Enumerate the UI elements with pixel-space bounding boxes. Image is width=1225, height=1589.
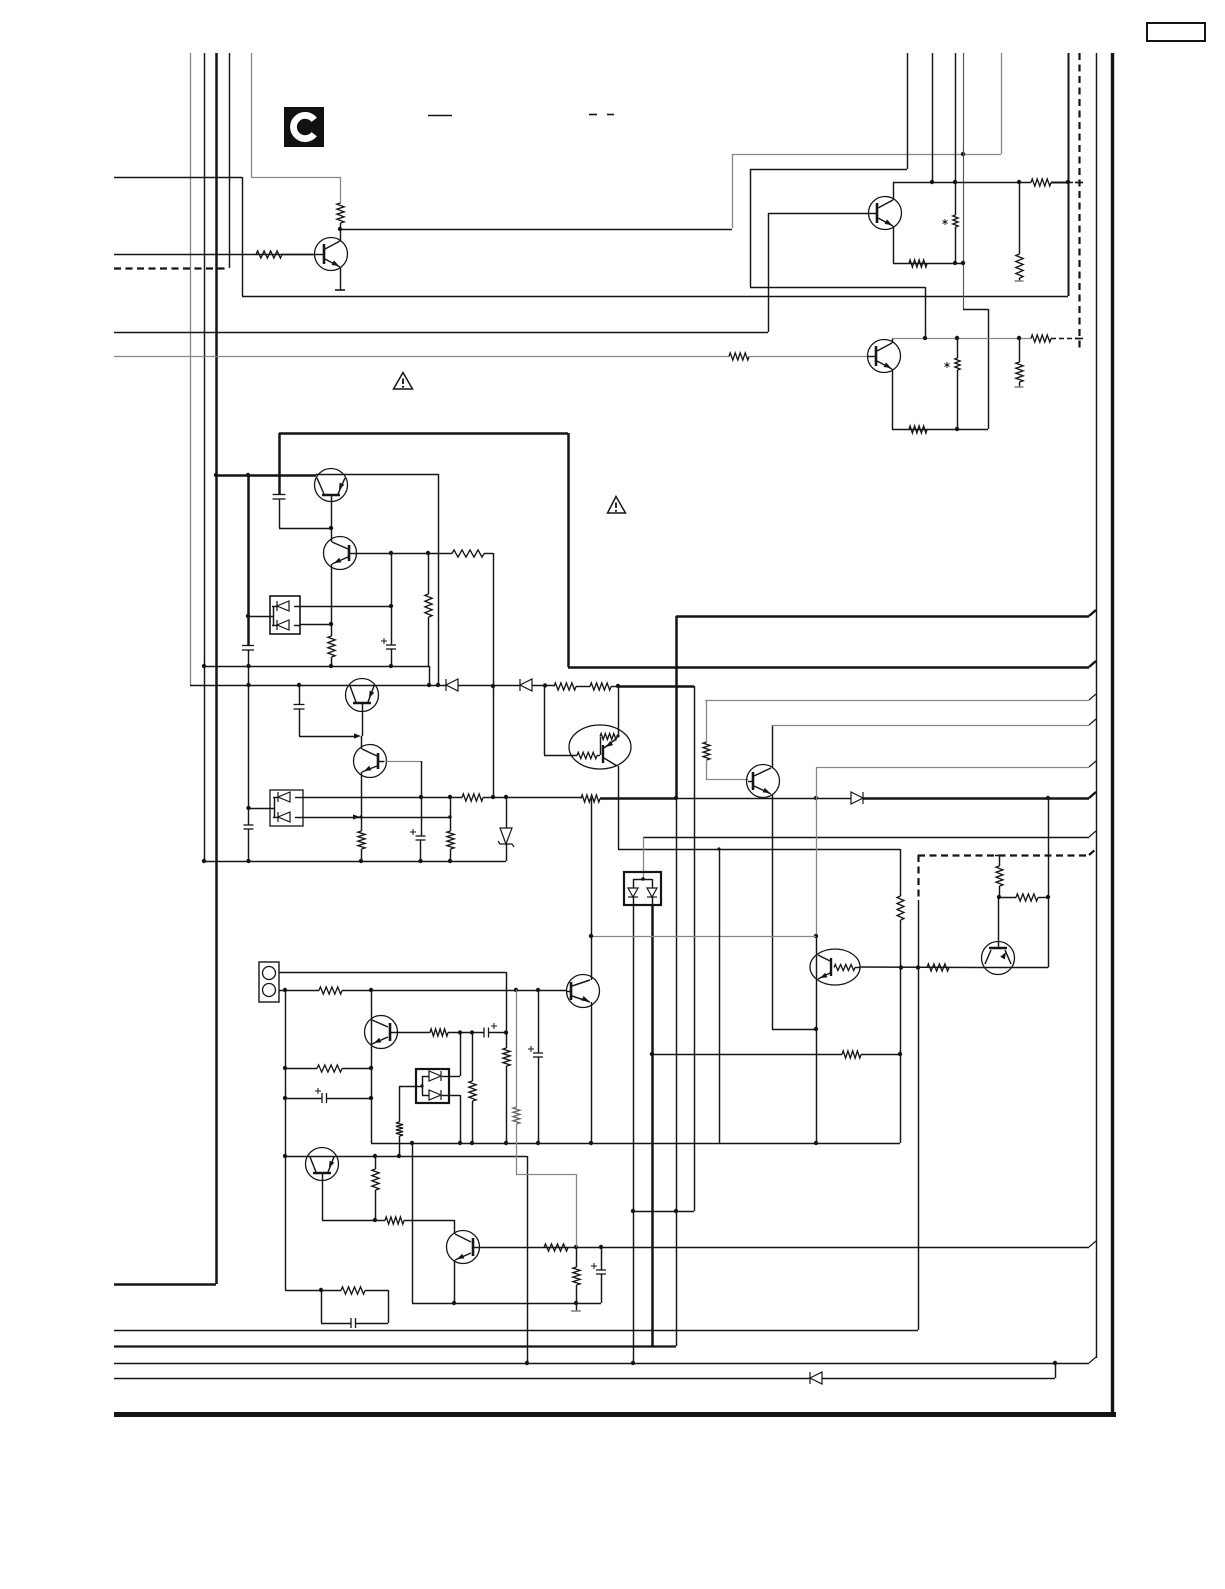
node x321 y1290	[319, 1288, 323, 1292]
wire x421 to cap	[421, 797, 423, 836]
wire gray y700	[705, 700, 1089, 702]
resistor R32 y1220	[385, 1217, 404, 1224]
node x248 y616	[246, 614, 250, 618]
wire Q1 base y213	[768, 213, 869, 215]
node x460 y1143	[458, 1141, 462, 1145]
wire y861	[204, 861, 506, 863]
wire vertical x391	[391, 553, 393, 645]
wire Q1 emitter down	[893, 226, 895, 263]
resistor R9 vertical x957 (*)	[944, 338, 960, 429]
wire vertical x340 resistor chain	[340, 177, 342, 203]
wire x248 below C3	[248, 650, 250, 666]
wire y1032 right	[489, 1032, 506, 1034]
node x391 y666	[389, 664, 393, 668]
wire x460 upper	[460, 1033, 462, 1077]
node x371 y1098	[369, 1096, 373, 1100]
wire y182 collector line	[893, 182, 1031, 184]
wire y338 collector line	[892, 338, 1031, 340]
wire box2 lower lead y817	[303, 817, 450, 819]
wire vertical thick x1068	[1068, 53, 1070, 296]
diode D9 in box3	[628, 888, 638, 897]
node x493 y686	[491, 684, 495, 688]
diode D13 y1378	[810, 1372, 822, 1384]
dashed y338 stub	[1051, 338, 1081, 340]
wire x399 low	[399, 1136, 401, 1156]
wire gray y936	[591, 936, 816, 938]
wire y1363	[114, 1363, 1089, 1365]
wire Q7 base right gray	[384, 761, 421, 763]
node x816 y798	[814, 796, 818, 800]
resistor R30 vertical x399	[396, 1122, 403, 1136]
node x331 y666	[329, 664, 333, 668]
resistor R31 vertical x375	[372, 1156, 379, 1220]
node x618 y736	[616, 734, 619, 737]
node y296 long wire	[242, 296, 1068, 298]
resistor R37 vertical x428	[425, 594, 432, 617]
resistor R22 vertical x999	[996, 856, 1003, 897]
wire vertical x412	[412, 1143, 414, 1303]
transistor Q13	[365, 1016, 398, 1049]
node x248 y666	[246, 664, 250, 668]
node x454 y1303	[452, 1301, 456, 1305]
resistor R11 vertical x1019b	[1016, 338, 1023, 387]
node x676 y1211	[674, 1209, 678, 1213]
transistor Q4	[315, 469, 348, 502]
diode D2 in box1	[272, 620, 300, 630]
wire y309 jog	[963, 309, 988, 311]
wire x248 to 861	[248, 666, 250, 825]
wire y475 thick segment	[216, 474, 316, 477]
wire vertical x591	[591, 798, 593, 980]
diode D1 in box1	[272, 601, 300, 611]
wire y798 thick	[600, 797, 676, 800]
tick y182 dashed	[1075, 182, 1083, 184]
capacitor C10 x601 (+)	[591, 1263, 606, 1274]
node x633 y1211	[631, 1209, 635, 1213]
bus bend y1363	[1089, 1357, 1096, 1363]
wire y1032 mid	[448, 1032, 484, 1034]
wire y990 mid	[342, 990, 567, 992]
tick y855 x999	[995, 855, 1003, 857]
resistor R20 y967	[927, 964, 949, 971]
node x601 y1247	[599, 1245, 603, 1249]
wire y1303	[412, 1303, 601, 1305]
wire y1068 right	[342, 1068, 371, 1070]
wire x538 low	[538, 1057, 540, 1143]
node y154 x963	[961, 152, 965, 156]
wire y553 base line	[356, 553, 452, 555]
diode D10 in box3	[647, 888, 657, 897]
transistor Q6	[346, 679, 379, 712]
node x438 y685	[436, 683, 440, 687]
diode D12 in box4	[422, 1090, 449, 1100]
wire x676 lower	[676, 798, 678, 1346]
wire vertical x204	[204, 53, 206, 861]
transistor Q7	[354, 745, 387, 778]
wire x279 below cap	[279, 499, 281, 528]
node x652 y1054	[650, 1052, 654, 1056]
wire y1211	[633, 1211, 694, 1213]
diode box1	[270, 596, 300, 634]
transistor Q2	[868, 340, 901, 373]
wire y254 base line	[114, 254, 315, 256]
resistor R17 vertical x450	[447, 797, 454, 861]
page number box (top right)	[1147, 23, 1205, 41]
wire box2 internal	[274, 797, 276, 817]
wire y229 collector to right	[340, 229, 732, 231]
node collector Q3	[338, 227, 342, 231]
bus bend y1247	[1089, 1241, 1096, 1247]
wire y287	[750, 287, 925, 289]
arrow into x361 y817	[353, 814, 360, 819]
resistor R14 y686	[554, 683, 576, 690]
node x963 y263	[961, 261, 965, 265]
node x1019 y182	[1017, 180, 1021, 184]
wire vertical x918	[918, 900, 920, 1330]
diode D4 y685	[520, 679, 532, 691]
node x399 y1156	[397, 1154, 401, 1158]
wire box2 upper lead y797	[303, 797, 421, 799]
wire Q15 emitter	[454, 1260, 456, 1303]
wire x321 down	[321, 1290, 323, 1323]
transistor Q9	[747, 765, 780, 798]
wire vertical x421	[421, 761, 423, 797]
wire y1290	[285, 1290, 341, 1292]
wire vertical thick x652	[651, 905, 654, 1346]
node x1048 y798	[1046, 796, 1050, 800]
wire box1 upper lead y606	[300, 606, 391, 608]
wire x454 down	[454, 1220, 456, 1234]
transistor Q12	[567, 975, 600, 1008]
wire y972 pin1	[279, 972, 506, 974]
stray dash y114 a	[589, 114, 597, 116]
wire y1156	[285, 1156, 527, 1158]
node x900 y1054	[898, 1052, 902, 1056]
wire x248 below C4	[248, 829, 250, 861]
node x957 y338	[955, 336, 959, 340]
node x248 y685	[246, 683, 250, 687]
node y528 x331	[329, 526, 333, 530]
wire vertical x955 top	[955, 53, 957, 182]
wire y897 right	[1038, 897, 1048, 899]
wire y685 seg3	[532, 685, 554, 687]
wire y990 pin2	[279, 990, 319, 992]
terminal bar below R7	[1015, 280, 1024, 282]
node x506 y1032	[504, 1030, 508, 1034]
wire y797 mid2	[483, 797, 506, 799]
diode D3 y685	[446, 679, 458, 691]
wire Q9 emitter down	[772, 794, 774, 1029]
wire gray x705	[706, 700, 708, 742]
wire Q2 emitter down	[892, 369, 894, 429]
node x816 y936	[814, 934, 818, 938]
resistor R19 vertical x705	[703, 742, 710, 760]
bus bend y700	[1089, 694, 1096, 700]
wire x331 Q4-Q5	[331, 528, 333, 542]
wire y685 gray start	[190, 685, 446, 687]
wire y154 gray	[732, 154, 1001, 156]
transistor Q14	[306, 1148, 339, 1181]
right page border (thick)	[1111, 53, 1114, 1417]
wire gray y767	[816, 767, 1089, 769]
wire y686 to node	[611, 686, 618, 688]
capacitor C1 x279	[273, 495, 286, 500]
zener D7 x506	[498, 797, 514, 861]
resistor R13 vertical x331	[328, 624, 335, 666]
node x506 y1143	[504, 1141, 508, 1145]
bus bend y837	[1089, 831, 1096, 837]
node x248 y808	[246, 806, 250, 810]
node x493 y797	[491, 795, 495, 799]
wire vertical x493	[493, 553, 495, 797]
transistor Q1	[869, 197, 902, 230]
wire y1220 right	[404, 1220, 454, 1222]
wire x900 low	[900, 920, 902, 1143]
wire gray x516	[516, 990, 518, 1107]
wire thick vertical x568	[567, 433, 570, 667]
wire vertical gray x1001	[1001, 53, 1003, 154]
wire x391 below C2	[391, 649, 393, 666]
arrow into x362 y736	[354, 733, 361, 738]
node x933 y182	[930, 180, 934, 184]
diode D11 in box4	[422, 1071, 449, 1081]
node x412 y1143	[410, 1141, 414, 1145]
dashed hot line y268	[114, 267, 229, 269]
wire y1290 right	[365, 1290, 388, 1292]
resistor R3 vertical x340	[337, 203, 344, 223]
resistor R16 vertical x361	[358, 817, 365, 861]
wire Q2 collector up	[892, 338, 894, 343]
node x216 y475	[214, 473, 218, 477]
wire x361 Q6-Q7	[361, 736, 363, 749]
wire y797 mid	[421, 797, 462, 799]
dashed hot bus vertical x1079	[1078, 53, 1080, 352]
resistor R8 y338	[1031, 335, 1051, 342]
wire thick y667	[568, 666, 1089, 669]
node x955 y182	[953, 180, 957, 184]
wire box4 lower lead	[449, 1095, 460, 1097]
wire x428 upper	[428, 553, 430, 594]
terminal bar x576	[571, 1303, 581, 1311]
wire y528	[279, 528, 331, 530]
wire Q3 emitter	[340, 267, 342, 290]
wire thick vertical x279	[278, 433, 281, 494]
resistor R5 vertical x955 (*)	[942, 182, 958, 263]
node x450 y797	[448, 795, 452, 799]
node x285 y1156	[283, 1154, 287, 1158]
section label C (black box)	[284, 107, 324, 147]
node box4 center	[420, 1084, 423, 1087]
node x421 y861	[418, 859, 422, 863]
resistor R26 y1068	[317, 1065, 342, 1072]
wire vertical x618 lower	[618, 766, 620, 849]
wire y798 mid2	[676, 798, 851, 800]
dashed vertical x918	[917, 855, 919, 900]
dashed y182 stub	[1068, 182, 1081, 184]
wire y1247 base line	[480, 1247, 1089, 1249]
wire y553 to corner	[484, 553, 493, 555]
wire D10 out	[652, 897, 654, 905]
resistor R21 y897	[1016, 894, 1038, 901]
wire y356b	[749, 356, 868, 358]
wire Q11 base up	[998, 897, 1000, 947]
node x371 y990	[369, 988, 373, 992]
wire thick top y433	[279, 432, 568, 435]
wire vertical x750	[750, 169, 752, 287]
wire y177 left	[114, 177, 242, 179]
wire x388 down	[388, 1290, 390, 1323]
wire vertical x229	[229, 53, 231, 268]
wire vertical x900	[900, 849, 902, 896]
wire y1330	[114, 1330, 918, 1332]
diode box2	[270, 790, 303, 826]
wire vertical x506	[506, 972, 508, 1033]
wire y1220	[322, 1220, 385, 1222]
node x925 y338	[923, 336, 927, 340]
wire y1378	[114, 1378, 810, 1380]
wire Q14 base down	[322, 1174, 324, 1220]
digital transistor Q8 (oval)	[569, 725, 631, 769]
node x361 y817	[359, 815, 362, 818]
wire y897	[999, 897, 1016, 899]
wire gray x516 low	[516, 1124, 518, 1174]
wire vertical x932	[932, 53, 934, 182]
wire box4 upper lead	[449, 1076, 461, 1078]
wire y1143	[371, 1143, 900, 1145]
resistor R18 y798	[581, 795, 600, 802]
wire gray y725	[772, 725, 1089, 727]
wire Q7 emitter down	[361, 772, 363, 817]
bus bend y855 dashed	[1089, 849, 1096, 855]
node x375 y1220	[373, 1218, 377, 1222]
wire gray x705 low	[706, 760, 708, 780]
node x285 y1068	[283, 1066, 287, 1070]
wire vertical x371	[371, 990, 373, 1143]
wire x331 Q5 emitter	[331, 564, 333, 624]
node x633 y1363	[631, 1361, 635, 1365]
resistor R2 on y356	[729, 353, 749, 360]
wire y686 thick	[618, 685, 694, 688]
wire x472	[472, 1033, 474, 1082]
wire y169	[750, 169, 907, 171]
capacitor C4 x248	[244, 825, 254, 829]
node x576 y1247	[574, 1245, 578, 1249]
wire vertical gray x190	[190, 53, 192, 685]
node x472 y1032	[470, 1030, 474, 1034]
wire x591 emitter	[591, 1002, 593, 1143]
wire vertical thick x216	[215, 53, 218, 1284]
node x299 y685	[297, 683, 301, 687]
wire x601 cap chain	[601, 1247, 603, 1270]
wire x732 vertical	[732, 154, 734, 228]
wire y1054 right	[861, 1054, 900, 1056]
wire y967 base to Q11	[860, 966, 983, 969]
wire y356 gray base line	[114, 356, 729, 358]
terminal bar Q3 emitter	[335, 289, 345, 291]
resistor R28 vertical x472	[469, 1081, 476, 1101]
wire thick y1346	[114, 1345, 676, 1347]
wire Q1 collector up	[893, 182, 895, 200]
node y182 x1068	[1066, 180, 1070, 184]
wire y1323 left	[321, 1323, 351, 1325]
diode D6 in box2	[273, 812, 303, 822]
node x285 y990	[283, 988, 287, 992]
resistor R12 y553	[452, 550, 484, 557]
wire y736	[299, 736, 356, 738]
capacitor C6 x421 (+)	[410, 829, 426, 840]
wire vertical x438	[438, 474, 440, 685]
wire vertical x285	[285, 990, 287, 1290]
wire Q9 collector up	[772, 725, 774, 768]
node x331 y624	[329, 622, 333, 626]
wire vertical x988	[988, 309, 990, 429]
bottom page border (thick)	[114, 1412, 1116, 1417]
wire y666	[204, 666, 429, 668]
wire y177 gray right	[251, 177, 341, 179]
node x391 y606	[389, 604, 393, 608]
wire vertical x242	[242, 177, 244, 296]
node x527 y1363	[525, 1361, 529, 1365]
terminal bar below R11	[1015, 386, 1024, 388]
wire vertical x816 lower	[816, 936, 818, 1143]
wire y475 thin segment	[316, 474, 438, 476]
wire x340 to collector node	[340, 223, 342, 241]
node x506 y797	[504, 795, 508, 799]
wire box1 lower lead y624	[300, 624, 331, 626]
wire x421 below C6	[420, 840, 422, 861]
wire vertical x816 upper	[816, 767, 818, 936]
capacitor C5 x299	[294, 705, 305, 710]
node x248 y861	[246, 859, 250, 863]
resistor R38 y797	[462, 794, 483, 801]
node x460 y1032	[458, 1030, 462, 1034]
wire x643 into box3	[643, 837, 645, 879]
node x375 y1156	[373, 1154, 377, 1158]
wire y263 emitter line	[893, 263, 963, 265]
wire y685 seg2	[458, 685, 520, 687]
wire y1029	[772, 1029, 816, 1031]
resistor R34 vertical x516	[513, 1107, 520, 1124]
node x591 y936	[589, 934, 593, 938]
wire Q6 base down	[362, 704, 364, 736]
bus bend y725	[1089, 719, 1096, 725]
node x538 y990	[536, 988, 540, 992]
wire vertical x527	[527, 1156, 529, 1363]
diode D8 y798	[851, 792, 863, 804]
wire x299 below C5	[299, 709, 301, 736]
resistor R15 y686	[590, 683, 611, 690]
resistor R23 vertical x900	[897, 896, 904, 920]
transistor Q11	[982, 942, 1015, 975]
wire x460 lower	[460, 1095, 462, 1143]
wire y968 through Q11	[983, 967, 1048, 969]
stray mark y115	[428, 115, 452, 117]
wire y1378 right	[822, 1378, 1055, 1380]
wire y429 emitter line	[892, 429, 988, 431]
transistor Q3	[315, 238, 348, 271]
capacitor C8 y1032 (+)	[484, 1023, 497, 1038]
wire Q4 base down	[331, 496, 333, 528]
resistor R25 y990	[319, 987, 342, 994]
node x545 y685	[543, 683, 547, 687]
wire y1054	[652, 1054, 842, 1056]
diode box4	[416, 1069, 449, 1103]
node x901 y967	[899, 965, 903, 969]
resistor R6 y263	[909, 260, 927, 267]
tick y338 dashed	[1075, 338, 1083, 340]
warning symbol 1	[394, 373, 413, 390]
node x204 y861	[202, 859, 206, 863]
